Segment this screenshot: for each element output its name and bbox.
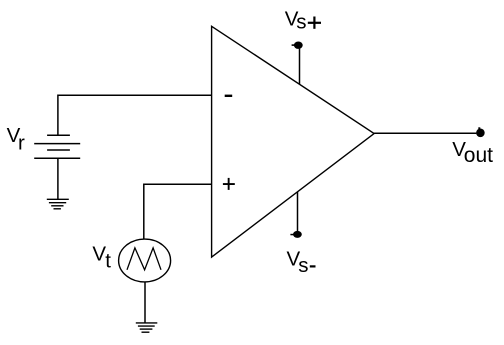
svg-text:out: out xyxy=(464,144,493,167)
svg-text:s: s xyxy=(298,254,308,277)
label Vt xyxy=(92,242,111,272)
label Vout xyxy=(452,138,493,167)
node Vs- (terminal dot) xyxy=(290,231,301,238)
svg-text:r: r xyxy=(18,131,25,154)
wire from Vs+ node down to op-amp top edge xyxy=(299,49,301,85)
wire from Vr bottom plate to ground xyxy=(57,158,59,199)
battery source Vr xyxy=(34,135,80,158)
ground (under Vr) xyxy=(47,199,69,209)
label Vr xyxy=(7,124,25,154)
svg-text:s: s xyxy=(296,10,306,33)
wire from Vr top plate up and right to inverting input xyxy=(58,95,212,134)
svg-text:t: t xyxy=(105,249,111,272)
wire from Vt bottom to ground xyxy=(144,282,146,323)
source Vt (triangle-wave source circle) xyxy=(119,239,171,282)
label Vs- xyxy=(287,248,316,278)
node Vout (terminal dot) xyxy=(476,127,485,137)
op-amp U1 (triangle body) xyxy=(212,26,375,257)
triangle-wave symbol inside Vt xyxy=(127,248,161,270)
op-amp non-inverting input '+' marker xyxy=(223,178,235,190)
node Vs+ (terminal dot) xyxy=(292,42,303,49)
label Vs+ xyxy=(285,8,321,34)
wire from Vt top up and right to non-inverting input xyxy=(144,184,212,239)
wire from op-amp bottom edge down to Vs- node xyxy=(297,192,299,231)
op-amp inverting input '-' marker xyxy=(225,95,233,97)
ground (under Vt) xyxy=(136,323,158,332)
wire from op-amp output to Vout node xyxy=(374,132,476,134)
